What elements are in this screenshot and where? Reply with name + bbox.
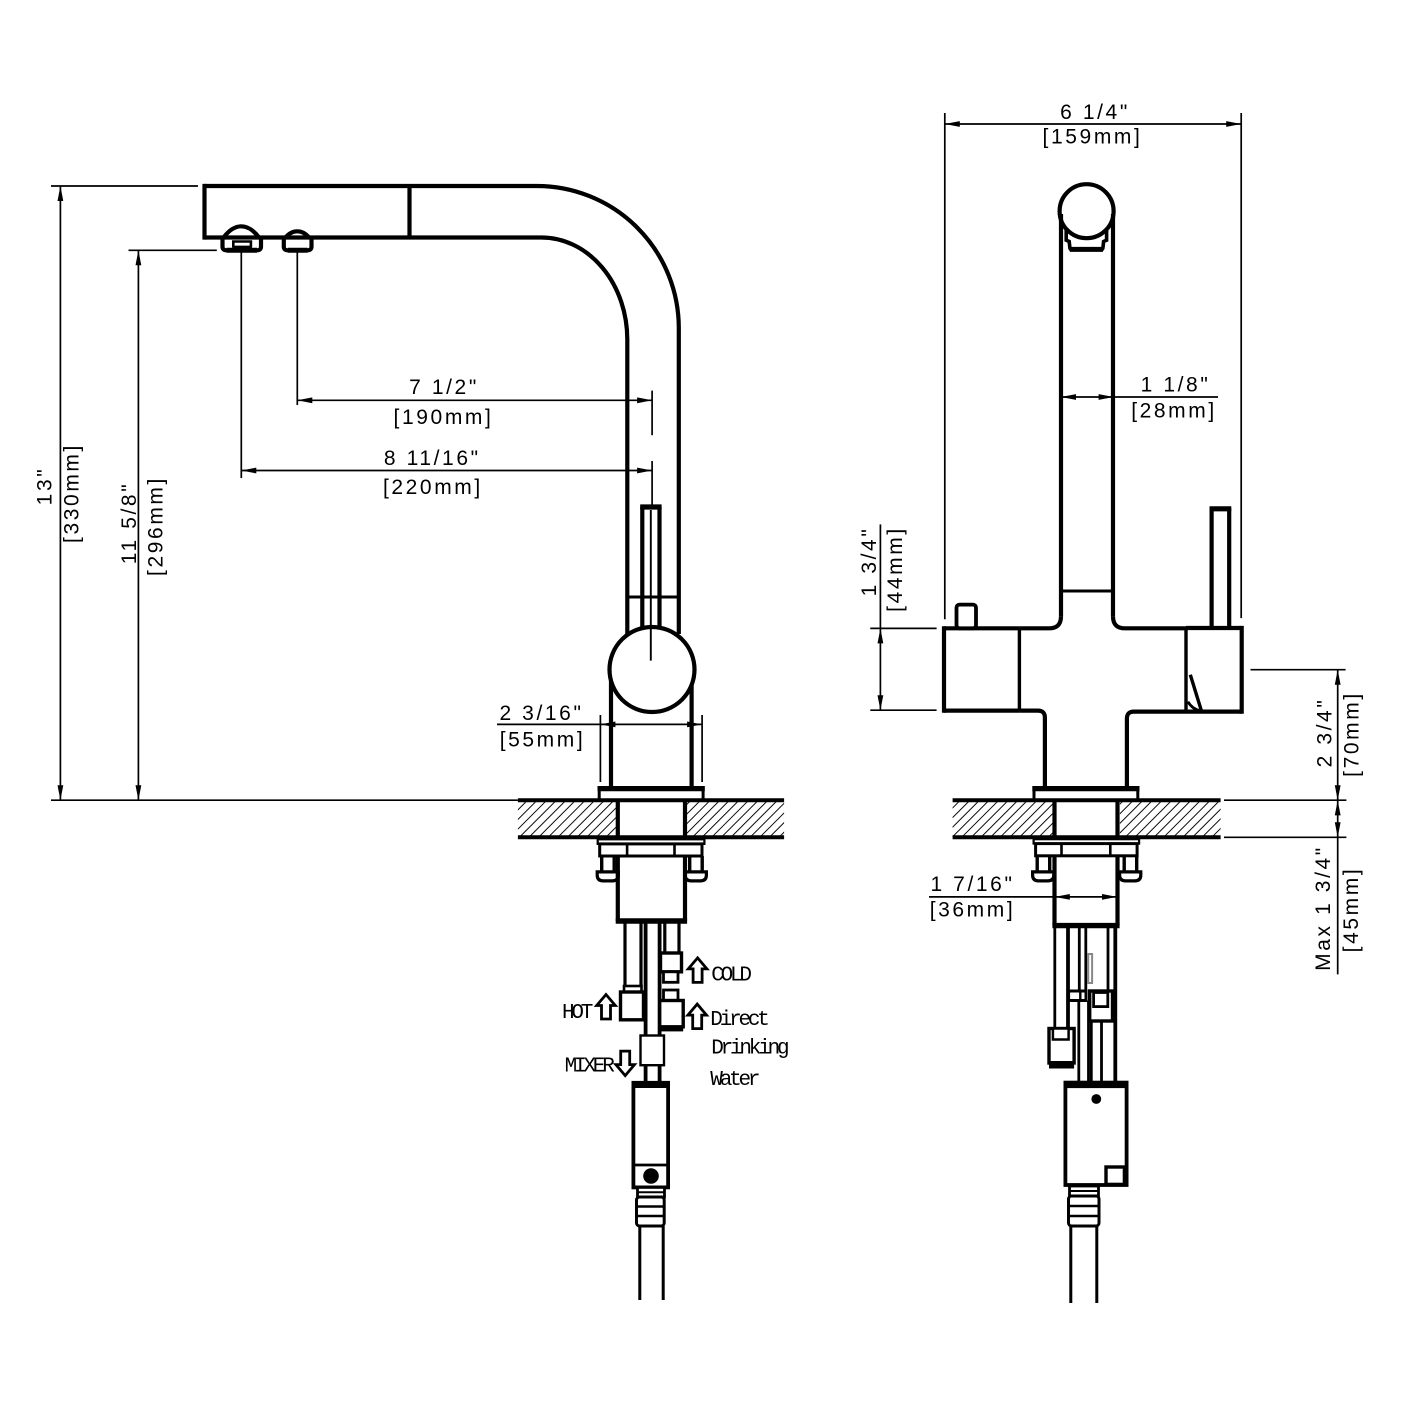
svg-text:[296mm]: [296mm] — [145, 476, 168, 576]
svg-text:COLD: COLD — [711, 965, 751, 988]
svg-text:11 5/8": 11 5/8" — [118, 482, 141, 564]
svg-text:HOT: HOT — [562, 1002, 593, 1025]
svg-text:2 3/4": 2 3/4" — [1314, 698, 1337, 768]
svg-text:[330mm]: [330mm] — [61, 443, 84, 543]
svg-text:Water: Water — [710, 1069, 759, 1092]
svg-text:Max 1 3/4": Max 1 3/4" — [1312, 845, 1335, 971]
svg-text:13": 13" — [34, 467, 57, 506]
svg-text:6 1/4": 6 1/4" — [1060, 101, 1130, 124]
svg-text:MIXER: MIXER — [565, 1056, 616, 1079]
svg-text:Drinking: Drinking — [711, 1038, 788, 1061]
svg-text:7 1/2": 7 1/2" — [409, 376, 479, 399]
svg-text:[44mm]: [44mm] — [884, 526, 907, 612]
svg-text:Direct: Direct — [710, 1009, 768, 1032]
svg-text:1 7/16": 1 7/16" — [930, 873, 1014, 896]
svg-text:[55mm]: [55mm] — [500, 729, 586, 752]
svg-text:[70mm]: [70mm] — [1341, 691, 1364, 777]
svg-text:[28mm]: [28mm] — [1131, 400, 1217, 423]
svg-text:2 3/16": 2 3/16" — [499, 702, 583, 725]
svg-text:1 3/4": 1 3/4" — [858, 527, 881, 597]
svg-text:8 11/16": 8 11/16" — [384, 447, 481, 470]
svg-text:[220mm]: [220mm] — [383, 476, 483, 499]
svg-text:[45mm]: [45mm] — [1340, 867, 1363, 953]
svg-text:[159mm]: [159mm] — [1043, 126, 1143, 149]
svg-text:[36mm]: [36mm] — [930, 899, 1016, 922]
svg-text:1 1/8": 1 1/8" — [1141, 374, 1211, 397]
svg-text:[190mm]: [190mm] — [394, 406, 494, 429]
